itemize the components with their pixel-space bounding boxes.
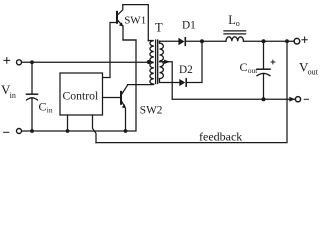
wire D1 cathode to Lo — [186, 40, 226, 42]
wire SW1 collector top — [123, 5, 149, 41]
svg-text:feedback: feedback — [199, 129, 242, 143]
wire control to ground — [67, 115, 69, 131]
wire secondary bottom to D2 — [160, 79, 180, 83]
Lo core lines — [224, 31, 246, 34]
node D2 riser top — [200, 39, 204, 43]
svg-text:out: out — [248, 66, 258, 75]
node control wire A — [66, 129, 70, 133]
svg-text:C: C — [39, 99, 47, 113]
C_out polarity plus — [271, 60, 275, 64]
wire + rail input — [22, 61, 149, 63]
capacitor C_out — [263, 41, 265, 69]
svg-text:out: out — [308, 68, 319, 77]
input + terminal — [17, 60, 22, 65]
transformer T secondary winding — [160, 41, 164, 78]
diode D2 — [179, 79, 186, 86]
node C_in top — [30, 60, 34, 64]
svg-text:D2: D2 — [179, 64, 193, 76]
node C_in bottom — [30, 129, 34, 133]
node primary center tap — [147, 60, 151, 64]
wire ground rail — [22, 40, 136, 131]
wire D2 cathode riser — [187, 41, 202, 82]
node C_out top — [262, 39, 266, 43]
wire SW2 emitter down — [125, 108, 127, 131]
output + terminal — [294, 38, 300, 44]
input minus sign — [4, 131, 9, 133]
center tap flow arrow — [164, 60, 170, 64]
node C_out bottom — [262, 97, 266, 101]
wire control to SW1 base — [103, 23, 117, 78]
ground rail flow arrow — [289, 97, 295, 102]
wire secondary top to D1 — [160, 40, 179, 42]
svg-text:C: C — [240, 60, 248, 74]
svg-text:T: T — [155, 20, 163, 34]
wire control to SW2 base — [103, 97, 121, 99]
svg-text:D1: D1 — [182, 19, 196, 31]
wire control feedback drop — [93, 115, 97, 143]
svg-text:L: L — [228, 13, 236, 27]
output plus sign — [302, 37, 307, 42]
wire secondary center tap — [160, 62, 173, 99]
diode D1 — [178, 38, 185, 46]
wire output ground rail — [172, 98, 295, 100]
input - terminal — [17, 129, 22, 134]
control block U1 — [60, 73, 103, 115]
input plus sign — [4, 58, 10, 64]
svg-text:in: in — [47, 106, 53, 115]
svg-text:SW2: SW2 — [140, 104, 163, 116]
transistor Q2 SW2 — [121, 85, 128, 108]
wire SW2 collector to primary bottom — [128, 84, 154, 86]
svg-text:Control: Control — [63, 89, 99, 102]
wire output top rail — [244, 40, 295, 42]
capacitor C_in — [31, 62, 33, 94]
output - terminal — [295, 97, 300, 102]
output minus sign — [304, 98, 308, 100]
transformer T primary winding — [148, 41, 154, 85]
node feedback tap — [285, 39, 289, 43]
wire feedback line — [96, 41, 287, 142]
svg-text:in: in — [10, 91, 16, 100]
node SW2 emitter — [124, 129, 128, 133]
inductor Lo — [226, 37, 244, 41]
svg-text:SW1: SW1 — [124, 15, 146, 27]
svg-text:o: o — [236, 19, 240, 28]
transistor Q1 SW1 — [117, 5, 123, 27]
transformer core — [156, 40, 158, 84]
wire SW1 emitter to ground riser — [123, 26, 136, 40]
